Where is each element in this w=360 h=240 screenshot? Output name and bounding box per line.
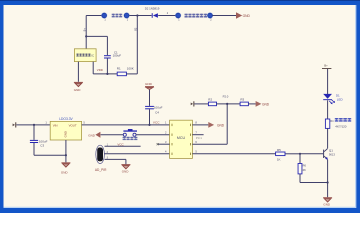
capacitor C3: [30, 140, 38, 143]
svg-text:VIN: VIN: [53, 124, 58, 128]
svg-text:100K: 100K: [127, 66, 134, 70]
wire C3 to LDO gnd node: [34, 154, 66, 156]
svg-text:R3: R3: [240, 97, 244, 101]
resistor R1: [117, 72, 126, 76]
pin number 1 of U4: [165, 121, 167, 125]
svg-text:IC: IC: [91, 53, 94, 57]
svg-text:GND: GND: [262, 102, 270, 106]
wire U1 pin to ground: [77, 62, 79, 82]
label R5: [277, 148, 281, 152]
pin number 2 of U3: [107, 151, 109, 154]
pin number 2 of U4: [165, 131, 167, 135]
wire MCU pin5 to R5: [192, 153, 275, 155]
wire diode to connector P3: [158, 15, 175, 17]
wire C3 bottom down: [33, 143, 35, 155]
label C1: [114, 51, 118, 55]
value 100uF of C1: [113, 54, 122, 58]
pin name VOUT of U2: [69, 124, 77, 128]
label 太阳能充电板 (solar charging panel): [185, 14, 208, 18]
connector P1 pin (battery +): [101, 12, 107, 18]
ground symbol above C4: [145, 86, 154, 89]
pin name GND of U2 rotated: [63, 131, 67, 137]
LDO regulator U2 body: [50, 121, 81, 140]
svg-text:P2.0: P2.0: [223, 95, 229, 99]
pin number 7 of U4: [195, 131, 197, 135]
net label B+ rotated: [82, 28, 86, 32]
connector P4 pin (solar panel): [207, 12, 213, 18]
svg-text:9013: 9013: [329, 153, 335, 157]
svg-text:GND: GND: [88, 133, 96, 137]
label D1: [336, 94, 340, 98]
label 限流电阻 (current limiting resistor): [335, 118, 351, 122]
wire R4 to Q1 collector: [327, 128, 329, 148]
wire MCU pin7 stub: [192, 134, 203, 136]
wire VCC rail LDO to MCU: [82, 124, 170, 126]
capacitor C4: [145, 106, 154, 109]
label D2 1N5819: [145, 6, 160, 10]
junction base node: [299, 153, 301, 155]
wire U3 pin3 right: [105, 158, 126, 160]
svg-text:100uF: 100uF: [113, 54, 122, 58]
ground symbol bottom right: [323, 197, 332, 202]
svg-text:GND: GND: [217, 123, 225, 127]
junction emitter ground node: [327, 181, 329, 183]
svg-text:R6: R6: [303, 164, 307, 168]
pin label 2 of P4: [210, 19, 212, 22]
net label P3.1 at MCU pin7: [196, 136, 202, 140]
svg-text:R1: R1: [117, 66, 121, 70]
wire VDD rail to R1: [93, 73, 117, 75]
value 4K7/120 of R4: [335, 125, 347, 129]
wire MCU pin6 right: [192, 143, 227, 145]
ground symbol under U1: [74, 82, 83, 87]
wire R5 to base junction: [285, 153, 300, 155]
value 100uF of C4: [154, 105, 163, 109]
resistor R4 current limit: [325, 119, 329, 128]
resistor R3: [240, 102, 248, 106]
net label GND (solar return): [243, 14, 251, 18]
value 9013 of Q1: [329, 153, 335, 157]
wire sense riser to top rail: [136, 16, 138, 74]
resistor R5: [276, 152, 285, 156]
label C3: [40, 144, 44, 148]
MCU U4 body: [170, 120, 193, 158]
power port GND arrow (solar return): [236, 12, 242, 18]
svg-text:GND: GND: [63, 131, 67, 137]
wire switch to MCU pin2: [136, 134, 169, 136]
wire U1 VDD pin down: [92, 62, 94, 74]
pin name dashes inside U4: [172, 124, 191, 155]
wire MCU pin8 to GND port: [192, 124, 208, 126]
wire U3 pin1 VCC stub: [105, 145, 141, 147]
power port GND arrow at switch: [95, 132, 100, 138]
pin number 4 of U4: [165, 150, 167, 154]
battery protection IC U1 body: [74, 49, 96, 62]
junction top rail to R1 sense: [136, 14, 138, 16]
pin number 5 of U4: [195, 150, 197, 154]
value 10K of R6: [301, 168, 306, 172]
junction C3 on input: [33, 124, 35, 126]
svg-text:100uF: 100uF: [154, 105, 163, 109]
pin number 1 of U3: [107, 144, 109, 147]
wire base node to Q1: [300, 153, 323, 155]
wire gnd port to switch: [101, 134, 124, 136]
net label B+ at LED supply: [324, 64, 328, 68]
wire gnd to C4 top: [149, 90, 151, 106]
wire R2 to R3: [217, 103, 241, 105]
wire port to R2: [194, 103, 208, 105]
pin label 1 of P3: [178, 19, 180, 22]
net label GND at switch port: [88, 133, 96, 137]
wire battery node to C1 top: [86, 35, 107, 37]
pin name VIN of U2: [53, 124, 58, 128]
wire node to ground symbol: [65, 155, 67, 162]
transistor Q1: [323, 149, 328, 160]
tactile switch S1: [123, 129, 137, 136]
label GND under U3 pin3: [122, 170, 130, 174]
wire LED to R4: [327, 100, 329, 119]
label LDO3.3V above U2: [59, 117, 73, 121]
label MCU inside U4: [177, 136, 186, 140]
wire battery+ to connector P1: [86, 15, 102, 17]
net label GND at divider: [262, 102, 270, 106]
label C4: [155, 110, 159, 114]
svg-text:GND: GND: [145, 82, 153, 86]
svg-text:GND: GND: [122, 170, 130, 174]
svg-text:GND: GND: [323, 203, 331, 207]
junction VDD C1 R1: [106, 73, 108, 75]
label GND above C4: [145, 82, 153, 86]
svg-text:Q1: Q1: [329, 148, 333, 152]
wire bottom rail to emitter: [300, 182, 328, 184]
net label P2.0 at divider tap: [223, 95, 229, 99]
input port B+: [13, 122, 17, 127]
svg-text:MCU: MCU: [177, 136, 186, 140]
wire MCU pin3 stub: [158, 143, 170, 145]
pin number 8 of U4: [195, 121, 197, 125]
wire emitter node to ground: [327, 183, 329, 198]
wire U3 pin2 to MCU pin4: [105, 153, 170, 155]
label Q1: [329, 148, 333, 152]
wire battery+ drop: [85, 16, 87, 49]
value 100K of R1: [127, 66, 134, 70]
svg-text:VCC: VCC: [117, 143, 124, 147]
svg-text:GND: GND: [61, 170, 69, 174]
svg-text:D2 1N5819: D2 1N5819: [145, 6, 160, 10]
sense input port: [191, 101, 195, 106]
wire down to C3: [33, 125, 35, 140]
label GND under U2: [61, 170, 69, 174]
wire R1 to sense riser: [126, 73, 137, 75]
svg-text:AD_PIR: AD_PIR: [95, 168, 107, 172]
diode D2 1N5819: [152, 13, 158, 18]
ground symbol under U2: [61, 162, 70, 167]
wire P4 to GND port: [213, 15, 237, 17]
connector P2 pin (battery): [124, 12, 130, 18]
label GND bottom right: [323, 203, 331, 207]
svg-text:1K: 1K: [277, 157, 281, 161]
junction LDO ground node: [65, 154, 67, 156]
label R4: [330, 120, 334, 123]
wire C4 bottom to VCC rail: [149, 109, 151, 125]
power port GND arrow at divider: [256, 101, 262, 107]
svg-text:B2: B2: [133, 27, 137, 31]
svg-text:P3.1: P3.1: [196, 136, 202, 140]
svg-text:B+: B+: [82, 28, 86, 32]
wire R3 to GND port: [248, 103, 255, 105]
wire R6 bottom down: [299, 174, 301, 183]
svg-text:LDO3.3V: LDO3.3V: [59, 117, 73, 121]
svg-text:B+: B+: [324, 64, 328, 68]
power bar symbol B+: [322, 67, 331, 70]
svg-text:LED: LED: [337, 97, 344, 101]
resistor R2: [208, 102, 216, 106]
svg-text:10K: 10K: [301, 168, 306, 172]
LED D1: [323, 94, 335, 104]
label R1: [117, 66, 121, 70]
net label VDD: [97, 68, 103, 72]
svg-text:4K7/120: 4K7/120: [335, 125, 347, 129]
resistor R6: [298, 164, 302, 174]
svg-text:GND: GND: [243, 14, 251, 18]
label 锂电池保护 inside U1: [76, 54, 90, 57]
label IC inside U1: [91, 53, 94, 57]
svg-text:R5: R5: [277, 148, 281, 152]
power port GND arrow at MCU pin8: [208, 122, 214, 128]
junction divider tap: [226, 103, 228, 105]
wire Q1 emitter down: [327, 160, 329, 183]
junction battery node: [85, 35, 87, 37]
pin number 5 of U2: [83, 121, 85, 125]
net label VCC at rail: [153, 120, 160, 124]
label AD_PIR of U3: [95, 168, 107, 172]
value 100uF of C3: [39, 140, 48, 144]
ground symbol under U3 pin3: [121, 164, 130, 169]
label R6: [303, 164, 307, 168]
label R3: [240, 97, 244, 101]
svg-text:C3: C3: [40, 144, 44, 148]
pin number 3 of U4: [165, 140, 167, 144]
net label GND at MCU pin8: [217, 123, 225, 127]
wire MCU pin6 riser to divider: [226, 104, 228, 144]
net label B2 rotated on sense riser: [133, 27, 137, 31]
wire down to C1: [106, 36, 108, 55]
PIR sensor U3 body: [96, 145, 105, 163]
junction C4 on VCC rail: [148, 124, 150, 126]
wire input port to LDO VIN: [16, 124, 50, 126]
svg-text:VCC: VCC: [153, 120, 160, 124]
wire supply to LED: [327, 69, 329, 94]
svg-text:R2: R2: [208, 97, 212, 101]
svg-text:C4: C4: [155, 110, 159, 114]
wire C1 bottom to VDD rail: [106, 59, 108, 74]
pin number 3 of U3: [107, 157, 109, 160]
wire U2 gnd pin down: [65, 140, 67, 155]
connector P3 pin (solar panel): [175, 12, 181, 18]
pin label 2 near diode: [167, 12, 169, 15]
svg-text:VOUT: VOUT: [69, 124, 77, 128]
wire base node to R6: [299, 154, 301, 164]
label GND under U1: [74, 88, 82, 92]
wire P2 to diode D2: [129, 15, 151, 17]
label 轻触开关 (tactile switch): [123, 137, 138, 140]
value 1K of R5: [277, 157, 281, 161]
pin number 1 of U2: [45, 121, 47, 125]
pin number 6 of U4: [195, 140, 197, 144]
capacitor C1: [104, 55, 111, 58]
no-connect tick at MCU pin3: [157, 143, 159, 145]
net label VCC at U3: [117, 143, 124, 147]
pin label 1 of P2: [127, 19, 129, 22]
label R2: [208, 97, 212, 101]
wire U3 pin3 down to ground: [125, 159, 127, 164]
svg-text:GND: GND: [74, 88, 82, 92]
label 锂电池 (lithium battery): [112, 14, 123, 18]
label LED: [337, 97, 344, 101]
pin label 1 of P1: [104, 19, 106, 22]
svg-text:VDD: VDD: [97, 68, 103, 72]
